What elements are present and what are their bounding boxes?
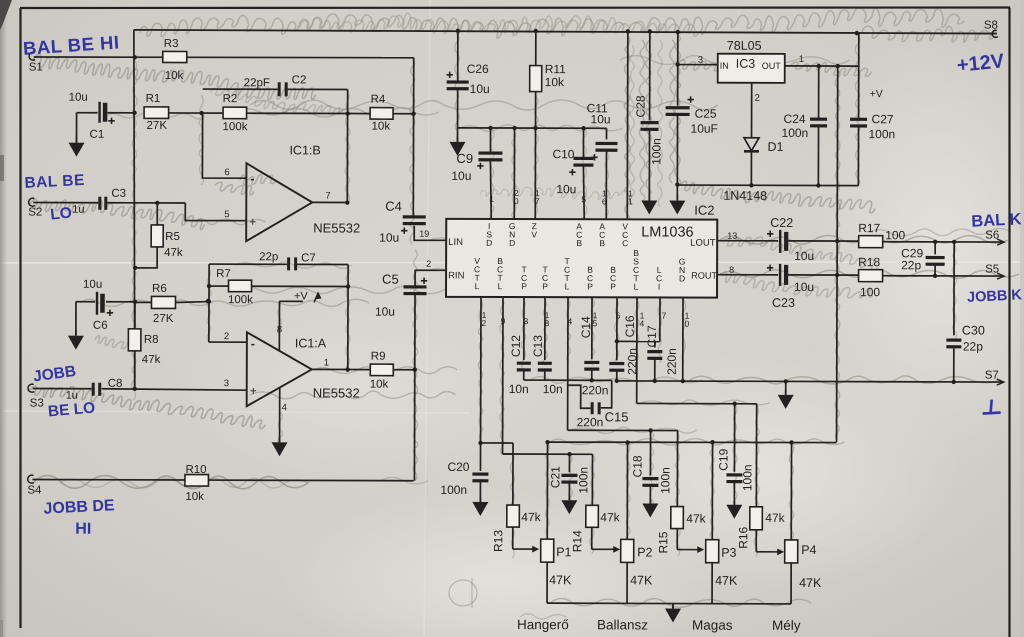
wire IC1:A right feedback rail: [346, 265, 351, 372]
capacitor C13: [531, 335, 563, 396]
wire +12V to IC2 pin 11: [627, 31, 633, 219]
svg-text:B: B: [576, 238, 582, 248]
capacitor C22: [767, 216, 814, 263]
handwritten label JOBB KI: [967, 287, 1023, 306]
capacitor C11: [586, 101, 617, 160]
wire C9 to IC2 pin 1: [489, 161, 494, 219]
handwritten label JOBB DE HI: [43, 497, 115, 538]
svg-text:2: 2: [482, 318, 487, 328]
svg-text:C12: C12: [509, 335, 523, 357]
svg-text:10k: 10k: [545, 75, 565, 89]
svg-text:100k: 100k: [228, 294, 253, 306]
svg-text:10u: 10u: [591, 112, 611, 126]
svg-text:C21: C21: [548, 466, 562, 488]
svg-text:R13: R13: [491, 530, 505, 552]
ground arrow below C19: [726, 501, 742, 519]
svg-text:22pF: 22pF: [244, 77, 270, 89]
svg-text:10n: 10n: [509, 382, 529, 396]
svg-text:R1: R1: [146, 93, 161, 105]
handwritten label BAL KI: [971, 210, 1022, 231]
svg-text:27K: 27K: [147, 120, 168, 132]
capacitor C24: [781, 66, 827, 185]
svg-text:100: 100: [885, 228, 905, 242]
wire R15 wiper to P3: [677, 529, 704, 553]
ground arrow below node at C26: [449, 128, 465, 156]
resistor R1: [144, 93, 204, 132]
svg-text:4: 4: [640, 318, 645, 328]
svg-text:S2: S2: [28, 207, 42, 219]
svg-text:P2: P2: [637, 545, 652, 559]
svg-text:R17: R17: [858, 221, 880, 235]
svg-text:C28: C28: [634, 95, 648, 117]
capacitor C20: [440, 443, 488, 502]
capacitor C5: [375, 272, 427, 319]
label Ballansz: [597, 617, 648, 632]
svg-text:JOBB DE: JOBB DE: [43, 497, 115, 517]
ground pin 4 of IC1:A: [272, 387, 288, 456]
wire ROUT line pin 8: [717, 265, 778, 275]
svg-text:10k: 10k: [372, 121, 391, 133]
svg-text:1u: 1u: [72, 204, 84, 216]
capacitor C6: [76, 279, 135, 332]
node S7 label: [985, 370, 999, 382]
capacitor C1: [68, 92, 133, 141]
svg-text:JOBB K: JOBB K: [967, 287, 1023, 306]
ground arrow below C28: [641, 195, 657, 214]
svg-text:6: 6: [616, 310, 621, 320]
wire IC2 pin 9: [500, 297, 513, 454]
svg-text:C4: C4: [385, 199, 402, 214]
svg-text:47k: 47k: [164, 247, 183, 259]
svg-text:S8: S8: [984, 20, 998, 32]
handwritten label JOBB BE LO: [32, 363, 96, 421]
svg-text:100n: 100n: [869, 127, 896, 141]
pin label 3 IC1:A: [224, 378, 229, 389]
svg-text:R4: R4: [371, 94, 386, 106]
svg-text:S3: S3: [30, 398, 44, 410]
resistor R14: [570, 505, 620, 552]
svg-text:S4: S4: [27, 485, 42, 497]
svg-text:C9: C9: [456, 151, 473, 166]
wire R14 wiper to P2: [592, 527, 621, 552]
svg-text:10u: 10u: [379, 231, 399, 245]
svg-text:BAL K: BAL K: [971, 210, 1022, 230]
svg-text:22p: 22p: [259, 251, 278, 263]
svg-text:S7: S7: [985, 370, 999, 382]
svg-text:B: B: [599, 238, 605, 248]
wire C23 to R18: [788, 274, 859, 276]
wire R13 wiper to P1: [513, 527, 540, 552]
capacitor C14: [579, 316, 609, 397]
svg-text:22p: 22p: [963, 339, 983, 353]
wire ground bus to S7: [616, 378, 1004, 385]
svg-text:R7: R7: [216, 268, 231, 280]
node S4 input connector: [27, 475, 42, 496]
handwritten ground symbol at S7: [983, 400, 1001, 414]
svg-text:5: 5: [581, 194, 586, 204]
wire IC1:A output pin 1: [312, 357, 348, 369]
wire balance node bus: [480, 443, 592, 505]
svg-text:R11: R11: [545, 62, 566, 76]
capacitor C28: [633, 31, 664, 200]
ground arrow below C1: [68, 113, 84, 157]
handwritten label BAL BE LO: [24, 172, 85, 224]
svg-text:C23: C23: [772, 296, 795, 310]
wire 78L05 OUT line: [785, 54, 859, 68]
resistor R4: [348, 94, 416, 133]
svg-text:P: P: [521, 281, 527, 291]
capacitor C25: [665, 96, 718, 184]
svg-text:C26: C26: [467, 62, 489, 76]
svg-text:R5: R5: [165, 231, 180, 243]
svg-text:10u: 10u: [69, 92, 88, 104]
capacitor C21: [548, 454, 590, 500]
capacitor C26: [446, 31, 490, 128]
svg-text:1u: 1u: [66, 390, 78, 402]
svg-text:IN: IN: [720, 61, 729, 71]
svg-text:L: L: [565, 281, 570, 291]
node S3 input connector: [28, 384, 44, 409]
svg-text:2: 2: [755, 93, 760, 104]
wire S1 line: [34, 55, 414, 61]
ground arrow below C18: [642, 499, 658, 517]
ground arrow below bus right: [778, 381, 794, 409]
svg-text:D1: D1: [767, 140, 783, 154]
wire S4 line: [32, 480, 413, 481]
svg-text:R18: R18: [858, 255, 880, 269]
wire S2 to opamp pin5: [107, 201, 246, 221]
svg-text:5: 5: [593, 318, 598, 328]
svg-text:78L05: 78L05: [727, 39, 762, 53]
svg-text:27K: 27K: [153, 313, 174, 325]
svg-text:I: I: [658, 282, 660, 292]
svg-text:100n: 100n: [649, 138, 663, 165]
regulator IC3 78L05: [718, 39, 785, 83]
pin label 5 IC1:B: [224, 209, 229, 220]
svg-text:C10: C10: [552, 147, 574, 161]
svg-text:10u: 10u: [375, 305, 395, 319]
svg-text:3: 3: [698, 55, 703, 66]
svg-text:LIN: LIN: [448, 237, 463, 248]
resistor R2 feedback: [201, 93, 350, 133]
wire IC2 pin 4 to treble line: [567, 297, 678, 433]
svg-text:3: 3: [524, 316, 529, 326]
wire pot supply rail: [545, 439, 836, 445]
svg-text:4: 4: [568, 316, 573, 326]
svg-text:D: D: [679, 273, 685, 283]
svg-text:47k: 47k: [765, 511, 785, 525]
svg-text:C27: C27: [872, 112, 894, 126]
capacitor C18: [630, 430, 672, 503]
resistor R15: [656, 430, 707, 553]
svg-text:NE5532: NE5532: [313, 220, 360, 235]
svg-text:47k: 47k: [142, 354, 161, 366]
svg-text:1: 1: [489, 194, 494, 204]
svg-text:10u: 10u: [556, 182, 576, 196]
svg-text:OUT: OUT: [762, 61, 782, 71]
svg-text:0: 0: [685, 319, 690, 329]
wire IC1:B feedback rail: [345, 90, 350, 205]
resistor R18: [858, 255, 883, 299]
ground arrow below C20: [472, 497, 488, 516]
svg-text:220n: 220n: [665, 348, 679, 375]
svg-text:100n: 100n: [576, 467, 590, 494]
wire C5 to RIN pin 2: [415, 259, 446, 271]
resistor R13: [491, 505, 541, 552]
wire +12V branch to 78L05 IN: [675, 32, 717, 106]
svg-text:220n: 220n: [577, 415, 604, 429]
capacitor C15 loop: [568, 380, 629, 429]
svg-text:C17: C17: [645, 325, 659, 347]
capacitor C3: [33, 188, 126, 216]
svg-text:C18: C18: [630, 455, 644, 477]
ground arrow below C25 on ground rail: [669, 182, 685, 214]
wire IC2 pin 7 link: [617, 297, 667, 341]
wire IC1:A left feedback rail: [207, 264, 212, 342]
svg-text:C6: C6: [93, 320, 108, 332]
svg-text:LM1036: LM1036: [641, 224, 693, 240]
svg-text:Ballansz: Ballansz: [597, 617, 648, 632]
resistor R10: [185, 464, 209, 503]
svg-text:47K: 47K: [715, 574, 738, 588]
svg-text:10k: 10k: [165, 70, 184, 82]
svg-text:8: 8: [545, 318, 550, 328]
wire zener node line: [458, 126, 607, 131]
svg-text:4: 4: [282, 402, 287, 413]
svg-text:C16: C16: [623, 315, 637, 337]
IC IC2 LM1036 body: [446, 202, 718, 298]
svg-text:100: 100: [860, 285, 880, 299]
svg-text:220n: 220n: [582, 383, 609, 397]
svg-text:Mély: Mély: [772, 618, 801, 633]
capacitor C9: [451, 128, 502, 183]
svg-text:10uF: 10uF: [691, 122, 718, 136]
wire IC2 pin 6: [615, 297, 621, 360]
svg-text:D: D: [486, 238, 492, 248]
node S1 input connector: [29, 52, 43, 73]
resistor R11: [530, 31, 567, 92]
svg-text:10u: 10u: [451, 169, 471, 183]
svg-text:19: 19: [419, 229, 429, 239]
label Hangero: [517, 617, 569, 632]
svg-text:7: 7: [325, 190, 330, 201]
svg-text:10k: 10k: [185, 491, 204, 503]
capacitor C27 on +V rail: [850, 33, 896, 186]
svg-text:1: 1: [324, 357, 329, 368]
capacitor C12: [509, 335, 531, 396]
svg-text:P: P: [587, 281, 593, 291]
svg-text:-: -: [251, 337, 255, 351]
svg-text:100n: 100n: [782, 126, 809, 140]
svg-text:C: C: [622, 238, 628, 248]
svg-text:9: 9: [501, 316, 506, 326]
svg-text:C7: C7: [301, 252, 316, 264]
potentiometer P3: [706, 442, 739, 604]
wire IC2 pin 10 ground: [681, 298, 690, 384]
svg-text:C5: C5: [382, 272, 399, 287]
svg-text:8: 8: [729, 265, 734, 275]
svg-text:47K: 47K: [549, 573, 572, 587]
wire LOUT line pin 13: [717, 231, 778, 241]
svg-text:ROUT: ROUT: [691, 271, 717, 281]
capacitor C30 to S7: [946, 242, 985, 382]
svg-text:L: L: [475, 281, 480, 291]
svg-text:100k: 100k: [223, 121, 248, 133]
wire S3 to opamp pin3: [102, 389, 247, 390]
svg-text:C19: C19: [716, 448, 730, 470]
resistor R9: [348, 351, 417, 391]
svg-text:IC1:A: IC1:A: [295, 336, 327, 350]
wire +V long vertical from OUT to pot rail: [834, 66, 840, 442]
svg-text:100n: 100n: [658, 467, 672, 494]
svg-text:V: V: [531, 229, 537, 239]
svg-text:6: 6: [224, 167, 229, 178]
ground arrow below C21: [561, 496, 577, 514]
wire R16 wiper to P4: [756, 530, 784, 555]
capacitor C10: [552, 128, 593, 196]
svg-text:C15: C15: [605, 409, 629, 424]
svg-text:47K: 47K: [630, 573, 653, 587]
svg-text:1: 1: [628, 196, 633, 206]
svg-text:2: 2: [224, 331, 229, 342]
wire IC2 pin 3: [523, 297, 528, 360]
svg-text:47k: 47k: [600, 510, 620, 524]
wire IC2 pin 15: [592, 297, 598, 359]
wire opamp IC1:A inverting input pin 2: [209, 331, 247, 342]
svg-text:R9: R9: [371, 351, 386, 363]
svg-text:+: +: [249, 215, 256, 229]
node S6 label: [985, 230, 999, 242]
resistor R7 feedback: [207, 268, 351, 306]
handwritten label +12V: [956, 50, 1006, 77]
svg-text:Magas: Magas: [692, 618, 733, 633]
svg-text:LO: LO: [50, 204, 73, 223]
capacitor C4: [379, 199, 426, 245]
svg-text:R8: R8: [144, 334, 159, 346]
ground arrow below C6: [68, 302, 84, 350]
svg-text:22p: 22p: [901, 258, 921, 272]
svg-text:BAL BE: BAL BE: [24, 172, 85, 192]
svg-text:C24: C24: [784, 112, 806, 126]
wire +12V top rail: [134, 28, 998, 38]
svg-text:100n: 100n: [440, 483, 467, 497]
svg-text:R3: R3: [164, 38, 179, 50]
resistor R16: [736, 404, 786, 549]
svg-text:RIN: RIN: [448, 270, 465, 281]
svg-text:47K: 47K: [799, 576, 822, 590]
svg-text:R16: R16: [736, 526, 750, 548]
wire C10 to IC2 pin 5: [581, 166, 586, 219]
svg-text:5: 5: [224, 209, 229, 220]
wire output node vertical to S4 line: [413, 270, 416, 481]
op-amp IC1:B: [246, 143, 360, 241]
svg-text:L: L: [498, 281, 503, 291]
svg-text:R14: R14: [570, 530, 584, 552]
wire IC2 pin 18: [544, 297, 549, 360]
svg-text:P: P: [542, 281, 548, 291]
wire IC1:B output pin 7: [312, 190, 347, 202]
svg-text:10u: 10u: [794, 249, 814, 263]
resistor R8: [128, 302, 161, 391]
svg-text:2: 2: [426, 259, 431, 269]
svg-text:10u: 10u: [470, 82, 490, 96]
wire right rail R3/R4 to C4: [412, 58, 414, 216]
svg-text:D: D: [509, 238, 515, 248]
svg-text:C2: C2: [292, 74, 307, 86]
wire main left vertical: [132, 30, 139, 389]
resistor R6: [135, 283, 210, 325]
capacitor C19: [716, 404, 754, 505]
svg-text:C14: C14: [579, 316, 593, 338]
svg-text:IC2: IC2: [694, 203, 714, 218]
svg-text:HI: HI: [75, 521, 91, 538]
svg-text:S5: S5: [985, 264, 999, 276]
svg-text:3: 3: [224, 378, 229, 389]
svg-text:47k: 47k: [686, 512, 706, 526]
op-amp IC1:A: [247, 332, 360, 406]
wire C22 to R17: [788, 240, 859, 242]
power pin 8 +V of IC1:A: [277, 290, 322, 350]
svg-text:P1: P1: [556, 545, 571, 559]
capacitor C23: [767, 264, 814, 310]
capacitor C16: [609, 315, 639, 383]
svg-text:IC1:B: IC1:B: [289, 143, 320, 157]
svg-text:C22: C22: [770, 216, 793, 230]
svg-text:6: 6: [602, 196, 607, 206]
svg-text:S1: S1: [29, 62, 43, 74]
svg-text:+: +: [250, 384, 257, 398]
svg-text:+V: +V: [870, 88, 883, 100]
ground arrow on pot bus: [665, 604, 681, 623]
svg-text:47k: 47k: [521, 510, 541, 524]
node S5 label: [985, 264, 999, 276]
diode D1 1N4148: [723, 83, 783, 203]
svg-text:10n: 10n: [543, 382, 563, 396]
svg-text:C13: C13: [531, 335, 545, 357]
wire C4 to LIN pin 19: [414, 226, 446, 241]
svg-text:C20: C20: [447, 460, 469, 474]
svg-text:P3: P3: [721, 546, 736, 560]
svg-text:7: 7: [535, 196, 540, 206]
svg-text:C3: C3: [111, 188, 126, 200]
node S8 label: [984, 20, 998, 32]
svg-text:0: 0: [514, 196, 519, 206]
svg-text:C1: C1: [89, 129, 104, 141]
capacitor C29 between outputs: [901, 242, 945, 276]
potentiometer P2: [621, 442, 654, 603]
svg-text:10k: 10k: [370, 379, 389, 391]
svg-text:Hangerő: Hangerő: [517, 617, 569, 632]
wire IC2 pin 12: [478, 297, 486, 445]
label Magas: [692, 618, 733, 633]
svg-text:LOUT: LOUT: [690, 238, 716, 249]
capacitor C17: [645, 325, 679, 383]
resistor R3: [163, 38, 187, 82]
wire IC2 pin 14 to bass line: [637, 297, 757, 406]
wire node to IC2 pin 20: [514, 128, 519, 219]
svg-text:8: 8: [277, 324, 282, 335]
resistor R17: [858, 221, 905, 248]
svg-text:NE5532: NE5532: [313, 385, 360, 400]
svg-text:13: 13: [727, 231, 737, 241]
svg-text:+V: +V: [294, 290, 308, 302]
wire C11 to IC2 pin 16: [602, 151, 607, 219]
label Mely: [772, 618, 801, 633]
svg-text:10u: 10u: [83, 279, 102, 291]
svg-text:P4: P4: [801, 543, 816, 557]
wire R17 to S6: [883, 239, 1005, 245]
capacitor C7 feedback: [209, 251, 348, 270]
